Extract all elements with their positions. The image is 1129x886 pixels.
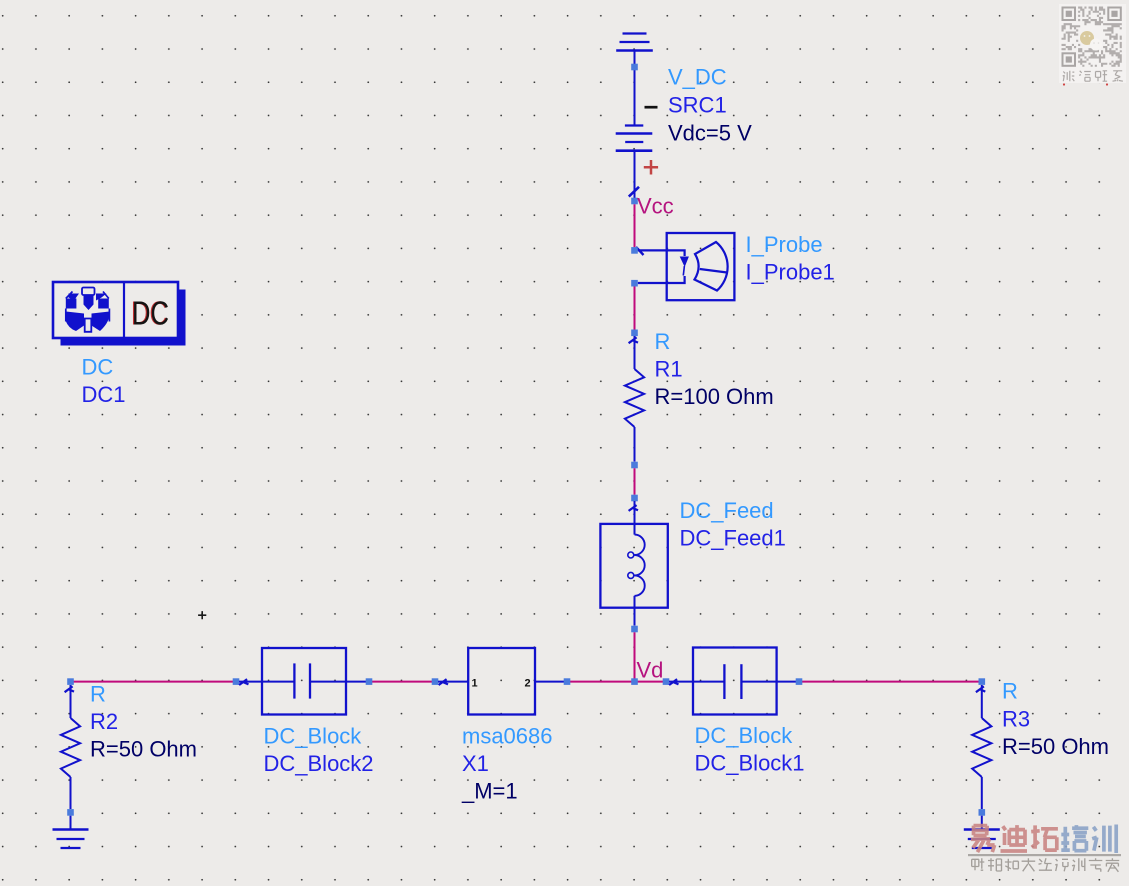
QR caption dots: [1063, 83, 1065, 85]
ground (R2): [53, 830, 89, 849]
pin tick msa0686: [439, 679, 448, 685]
tick at I_Probe pin: [636, 247, 644, 255]
svg-text:R2: R2: [90, 709, 118, 734]
plus sign of SRC1: [644, 160, 658, 175]
DC_Feed1 box: [600, 524, 667, 608]
svg-text:R3: R3: [1002, 707, 1030, 732]
svg-text:_M=1: _M=1: [461, 779, 518, 804]
DC_Feed lead bottom: [634, 596, 636, 626]
watermark underline: [968, 854, 1121, 856]
I_Probe1 box: [667, 233, 735, 300]
node at battery top pin: [631, 64, 638, 71]
node msa0686 right: [564, 678, 571, 685]
DC_Feed lead top: [634, 501, 636, 535]
node R1 bottom: [631, 462, 638, 469]
lead out of DC_Block1: [777, 681, 799, 683]
pin tick at battery bottom: [629, 187, 639, 197]
svg-text:DC: DC: [132, 295, 169, 332]
node I_Probe bottom: [631, 280, 638, 287]
wire DC_Block1 to R3: [799, 681, 982, 683]
ground (R3): [964, 830, 1000, 849]
svg-text:Vdc=5 V: Vdc=5 V: [668, 121, 752, 146]
pin tick R1: [629, 337, 638, 343]
battery SRC1 plates: [616, 126, 653, 151]
svg-text:DC: DC: [82, 355, 114, 380]
svg-text:R=50 Ohm: R=50 Ohm: [1002, 734, 1109, 759]
wire DC_Block2 to msa0686: [369, 681, 435, 683]
pin tick DC_Block2: [239, 679, 248, 685]
DC_Block2 box: [262, 648, 346, 715]
svg-text:Vcc: Vcc: [637, 194, 674, 219]
DC controller gear icon: [66, 288, 110, 332]
svg-text:msa0686: msa0686: [462, 724, 553, 749]
svg-text:I_Probe1: I_Probe1: [746, 260, 835, 285]
DC controller shadow: [61, 290, 186, 346]
svg-text:Vd: Vd: [637, 658, 664, 683]
svg-text:DC_Block: DC_Block: [695, 723, 794, 748]
amplifier X1 box: [468, 648, 535, 715]
pin tick R2: [65, 686, 74, 692]
DC_Block1 capacitor: [693, 664, 777, 699]
lead into DC_Block2: [239, 681, 262, 683]
minus sign of SRC1: [645, 106, 658, 109]
resistor R2: [61, 685, 80, 809]
svg-text:DC_Feed1: DC_Feed1: [680, 526, 786, 551]
svg-text:1: 1: [472, 678, 478, 690]
pin tick R3: [976, 686, 985, 692]
DC_Block2 capacitor: [262, 663, 346, 698]
node DC_Block2 right: [366, 678, 373, 685]
QR caption text: [1063, 71, 1123, 81]
svg-text:2: 2: [525, 678, 531, 690]
watermark slogan text: [972, 858, 1119, 872]
svg-text:DC_Block: DC_Block: [264, 724, 363, 749]
node msa0686 left: [432, 678, 439, 685]
wire DC_Feed to Vd node: [634, 632, 636, 681]
svg-text:R: R: [90, 682, 106, 707]
DC controller divider: [123, 282, 125, 338]
lead out of DC_Block2: [346, 681, 369, 683]
I_Probe internal loop wire: [638, 250, 685, 283]
wire R3 to ground: [981, 816, 983, 830]
lead into msa0686: [438, 681, 468, 683]
svg-text:DC_Block1: DC_Block1: [695, 751, 805, 776]
I_Probe current arrow: [680, 257, 689, 268]
wire msa0686 to DC_Block1 (through Vd): [567, 681, 666, 683]
node DC_Block1 right: [796, 678, 803, 685]
wire R2 to ground: [70, 816, 72, 830]
node R3 bottom: [979, 809, 986, 816]
node I_Probe top: [631, 247, 638, 254]
wire ground to battery: [634, 51, 636, 126]
origin cross marker: [198, 611, 206, 619]
wire Vcc node to I_Probe: [634, 204, 636, 247]
I_Probe fan divider: [700, 269, 727, 273]
wire I_Probe to R1: [634, 287, 636, 330]
node DC_Block2 left: [233, 678, 240, 685]
node DC_Feed bottom: [631, 626, 638, 633]
pin tick DC_Block1: [669, 679, 678, 685]
I_Probe meter fan: [695, 242, 728, 291]
DC_Block1 box: [693, 648, 777, 715]
QR code watermark: [1059, 4, 1126, 83]
node Vcc: [631, 198, 638, 205]
wire R2 to DC_Block2: [71, 681, 237, 683]
wire R1 to DC_Feed: [634, 468, 636, 494]
svg-text:I_Probe: I_Probe: [746, 232, 823, 257]
svg-text:R=100 Ohm: R=100 Ohm: [655, 384, 774, 409]
coil curl 1: [628, 552, 634, 558]
coil curl 2: [628, 572, 634, 578]
node R2 top: [67, 678, 74, 685]
DC_Feed inductor coil: [635, 535, 645, 596]
svg-text:DC_Block2: DC_Block2: [264, 751, 374, 776]
node DC_Block1 left: [663, 678, 670, 685]
watermark brand text: [971, 825, 1116, 854]
node R1 top: [631, 330, 638, 337]
pin tick DC_Feed: [629, 505, 638, 511]
svg-text:R: R: [1002, 679, 1018, 704]
node DC_Feed top: [631, 495, 638, 502]
resistor R3: [972, 685, 991, 809]
svg-text:R1: R1: [655, 357, 683, 382]
lead into DC_Block1: [669, 681, 693, 683]
wire battery to Vcc node: [634, 151, 636, 201]
svg-text:V_DC: V_DC: [668, 65, 727, 90]
svg-text:X1: X1: [462, 751, 489, 776]
svg-text:DC1: DC1: [82, 382, 126, 407]
svg-text:DC_Feed: DC_Feed: [680, 498, 774, 523]
node R2 bottom: [67, 809, 74, 816]
resistor R1: [625, 336, 644, 462]
svg-text:SRC1: SRC1: [668, 93, 727, 118]
lead out of msa0686: [535, 681, 567, 683]
node Vd junction: [631, 678, 638, 685]
node R3 top: [979, 678, 986, 685]
svg-text:R: R: [655, 329, 671, 354]
ground (top, at SRC1 minus terminal): [616, 34, 653, 51]
svg-text:R=50 Ohm: R=50 Ohm: [90, 737, 197, 762]
DC controller box: [53, 282, 178, 338]
